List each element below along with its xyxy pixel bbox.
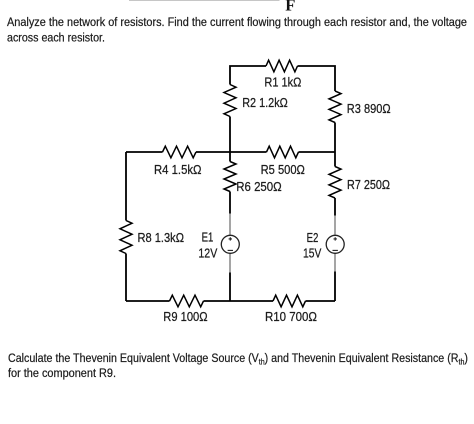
- label E2: [307, 230, 319, 245]
- label R7 250Ω: [347, 177, 390, 192]
- resistor R10: [273, 295, 306, 307]
- label E1: [202, 229, 214, 244]
- wire top rail: [230, 66, 335, 91]
- label 12V: [198, 245, 217, 260]
- svg-text:R3 890Ω: R3 890Ω: [347, 101, 391, 116]
- svg-text:R4 1.5kΩ: R4 1.5kΩ: [154, 162, 202, 177]
- svg-text:R10 700Ω: R10 700Ω: [265, 309, 317, 324]
- resistor R4: [163, 146, 197, 158]
- label R2 1.2kΩ: [242, 95, 288, 110]
- svg-text:15V: 15V: [303, 245, 321, 260]
- label R9 100Ω: [163, 309, 207, 324]
- svg-text:F: F: [285, 0, 295, 14]
- resistor R7: [329, 167, 341, 199]
- svg-text:E1: E1: [202, 229, 214, 244]
- resistor R9: [170, 295, 204, 307]
- resistor R8: [120, 221, 132, 254]
- label R5 500Ω: [261, 162, 305, 177]
- svg-text:across each resistor.: across each resistor.: [7, 30, 105, 44]
- header letter F: [285, 0, 295, 14]
- page header rule (cropped): [129, 0, 280, 1]
- voltage source E1: [221, 214, 239, 273]
- resistor R2: [224, 85, 236, 117]
- problem statement line 1: [7, 15, 467, 29]
- svg-text:R7 250Ω: R7 250Ω: [347, 177, 390, 192]
- wire middle rail vertical: [229, 117, 231, 302]
- label R6 250Ω: [236, 179, 282, 194]
- wire middle rail horizontal: [126, 151, 335, 153]
- resistor R6: [224, 162, 236, 192]
- wire left rail vertical: [125, 152, 127, 301]
- svg-text:R6 250Ω: R6 250Ω: [236, 179, 282, 194]
- label R3 890Ω: [347, 101, 391, 116]
- voltage source E2: [326, 216, 344, 272]
- svg-text:E2: E2: [307, 230, 319, 245]
- svg-text:for the component R9.: for the component R9.: [8, 366, 116, 380]
- label R8 1.3kΩ: [138, 230, 185, 245]
- svg-text:12V: 12V: [198, 245, 217, 260]
- svg-text:Analyze the network of resisto: Analyze the network of resistors. Find t…: [7, 15, 467, 29]
- label R4 1.5kΩ: [154, 162, 202, 177]
- svg-text:R5 500Ω: R5 500Ω: [261, 162, 305, 177]
- svg-text:R1 1kΩ: R1 1kΩ: [264, 75, 301, 90]
- resistor R3: [329, 91, 341, 123]
- svg-text:Calculate the Thevenin Equival: Calculate the Thevenin Equivalent Voltag…: [8, 353, 468, 367]
- resistor R5: [267, 146, 299, 158]
- label 15V: [303, 245, 321, 260]
- label R1 1kΩ: [264, 75, 301, 90]
- question line 1: [8, 353, 468, 367]
- label R10 700Ω: [265, 309, 317, 324]
- svg-text:R8 1.3kΩ: R8 1.3kΩ: [138, 230, 185, 245]
- problem statement line 2: [7, 30, 105, 44]
- svg-text:R2 1.2kΩ: R2 1.2kΩ: [242, 95, 288, 110]
- wire bottom rail: [126, 300, 335, 302]
- question line 2: [8, 366, 116, 380]
- resistor R1: [266, 60, 298, 72]
- svg-text:R9 100Ω: R9 100Ω: [163, 309, 207, 324]
- wire right rail vertical: [334, 123, 336, 302]
